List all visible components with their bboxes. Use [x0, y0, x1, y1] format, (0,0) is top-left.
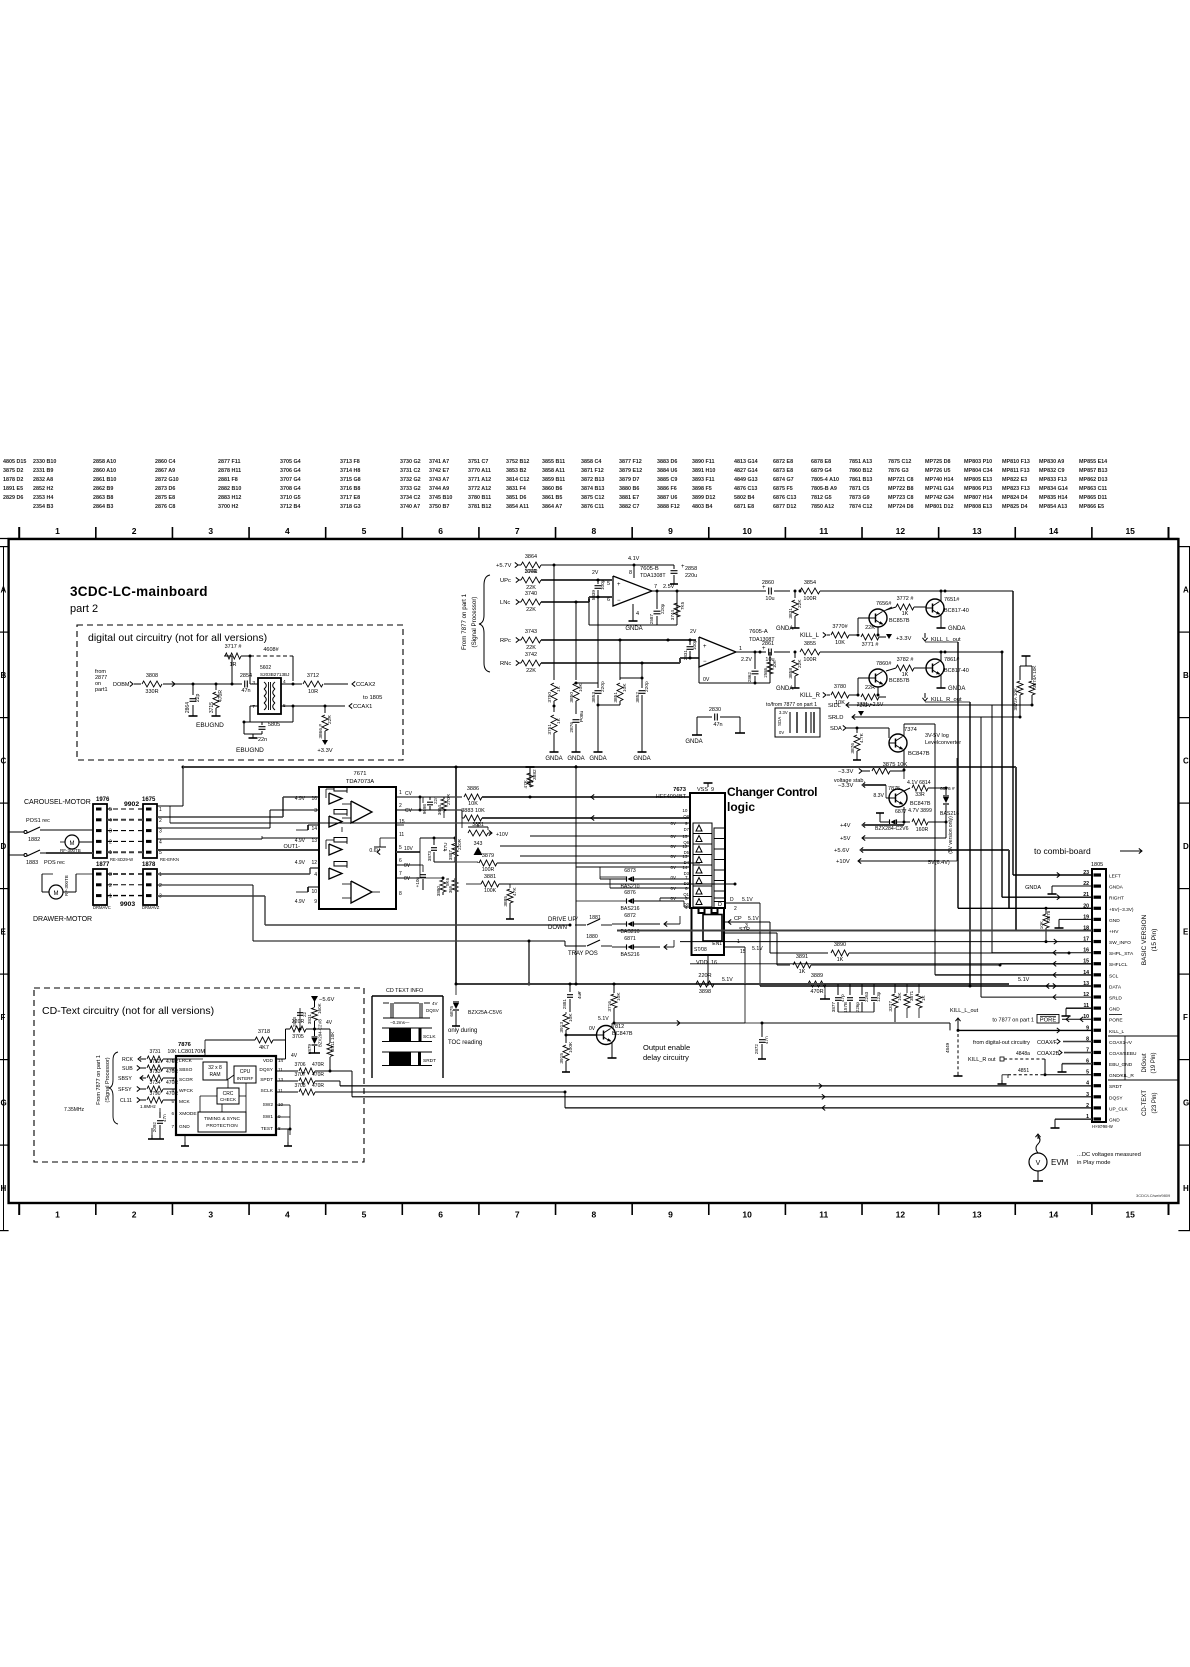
svg-text:3770 A11: 3770 A11: [468, 468, 491, 474]
transistor 7651 BC817-40: [926, 599, 944, 617]
svg-text:3873: 3873: [427, 851, 432, 862]
svg-text:3854 A11: 3854 A11: [506, 504, 529, 510]
resistor 3377 10K: [894, 984, 896, 993]
svg-text:4u7: 4u7: [577, 991, 582, 999]
svg-text:11: 11: [819, 526, 828, 536]
svg-text:3780 B11: 3780 B11: [468, 495, 491, 501]
transistor 7374 level converter: [889, 734, 907, 752]
svg-text:CHECK: CHECK: [220, 1097, 237, 1102]
svg-text:RCK: RCK: [122, 1057, 133, 1063]
svg-text:VDD: VDD: [263, 1058, 274, 1064]
transformer 5602 S203B2713BJ: [258, 678, 281, 714]
svg-text:voltage stab.: voltage stab.: [834, 778, 866, 784]
top ruler tick 0: [18, 527, 20, 539]
svg-text:SRDT: SRDT: [423, 1058, 436, 1064]
svg-text:1K: 1K: [556, 717, 562, 724]
svg-text:7: 7: [399, 871, 402, 877]
motor M carousel: [65, 835, 79, 849]
resistor 3711 10K vertical: [329, 1029, 331, 1043]
svg-text:2353 H4: 2353 H4: [33, 495, 53, 501]
svg-text:DRIVE UP⁄: DRIVE UP⁄: [548, 917, 578, 923]
svg-text:9902: 9902: [124, 801, 139, 808]
overline PORE pin: [1109, 1014, 1122, 1016]
wire pin16 SHPL_STA: [1068, 952, 1070, 954]
svg-text:SHFLCL: SHFLCL: [1109, 962, 1128, 968]
svg-text:2872: 2872: [754, 1044, 759, 1055]
svg-text:2.2V: 2.2V: [741, 657, 752, 663]
svg-text:(15 Pin): (15 Pin): [1151, 929, 1158, 952]
svg-text:3883 D6: 3883 D6: [657, 459, 677, 465]
svg-text:4: 4: [636, 611, 639, 617]
left margin outer line: [3, 547, 5, 1230]
svg-text:Q8: Q8: [683, 814, 689, 819]
svg-text:9: 9: [668, 1210, 673, 1220]
capacitor 2881 4u7 left: [569, 984, 571, 992]
svg-text:3879 E12: 3879 E12: [619, 468, 642, 474]
svg-text:3732: 3732: [149, 1059, 160, 1065]
svg-text:4.7V 3899: 4.7V 3899: [908, 808, 932, 814]
ground caps bank: [838, 1011, 874, 1013]
wire 3855 right: [820, 651, 1002, 653]
svg-text:PROTECTION: PROTECTION: [206, 1123, 238, 1129]
svg-text:3734: 3734: [149, 1080, 160, 1086]
resistor 3881 100K: [481, 881, 499, 887]
svg-text:8: 8: [591, 526, 596, 536]
svg-text:2858: 2858: [685, 566, 697, 572]
node KILL_R_out: [922, 698, 927, 701]
svg-text:330R: 330R: [145, 689, 158, 695]
capacitor 3877 47p: [837, 984, 839, 995]
svg-text:47K: 47K: [512, 887, 518, 896]
svg-text:3878: 3878: [1046, 910, 1051, 921]
svg-text:4.9V: 4.9V: [295, 899, 306, 905]
svg-text:1: 1: [55, 1210, 60, 1220]
output SCLK wire: [276, 1091, 298, 1093]
svg-text:BC847B: BC847B: [910, 801, 931, 807]
capacitor 2883 supply: [299, 1008, 301, 1029]
svg-text:5: 5: [607, 581, 610, 587]
svg-text:2330 B10: 2330 B10: [33, 459, 56, 465]
svg-text:100K: 100K: [568, 1041, 574, 1053]
svg-text:3740 A7: 3740 A7: [400, 504, 420, 510]
svg-text:10K: 10K: [835, 640, 845, 646]
svg-text:3885 C9: 3885 C9: [657, 477, 677, 483]
svg-text:SCLK: SCLK: [260, 1088, 273, 1094]
svg-text:3858 A11: 3858 A11: [542, 468, 565, 474]
svg-text:SW_INFO: SW_INFO: [1109, 940, 1131, 946]
svg-text:7651#: 7651#: [944, 597, 960, 603]
resistor 369x: [454, 878, 456, 880]
svg-text:RF-300TB: RF-300TB: [64, 875, 69, 896]
svg-text:RIGHT: RIGHT: [1109, 896, 1124, 902]
svg-text:2092: 2092: [152, 1122, 157, 1133]
svg-text:3858: 3858: [788, 668, 794, 679]
svg-text:1675: 1675: [142, 797, 156, 803]
svg-text:1881: 1881: [589, 915, 601, 921]
svg-text:6871: 6871: [624, 936, 636, 942]
svg-text:7851 A13: 7851 A13: [849, 459, 872, 465]
svg-text:OUT1-: OUT1-: [284, 844, 301, 850]
svg-text:47K: 47K: [523, 779, 529, 788]
wire HEF D2 row: [600, 876, 626, 878]
svg-text:1: 1: [109, 894, 112, 900]
resistor 3712 10R: [303, 681, 323, 687]
transistor 7656 BC857B: [869, 609, 887, 627]
svg-text:6876 #: 6876 #: [940, 786, 955, 792]
svg-text:RAM: RAM: [209, 1072, 220, 1078]
svg-text:V: V: [1036, 1160, 1041, 1167]
ground 2830 right: [739, 729, 741, 733]
svg-text:3864: 3864: [525, 554, 537, 560]
wire SDA to level converter: [846, 727, 857, 729]
svg-text:DRMAVC: DRMAVC: [93, 905, 111, 910]
svg-text:CD-Text circuitry (not for al: CD-Text circuitry (not for all versions): [42, 1005, 214, 1017]
TDA pin1 CV: [396, 796, 420, 798]
svg-text:6878 E8: 6878 E8: [811, 459, 831, 465]
capacitor 2587 220p feedback: [654, 610, 661, 612]
svg-text:3861 B5: 3861 B5: [542, 495, 562, 501]
wire LNc to opamp pin6: [541, 601, 589, 603]
svg-text:10K: 10K: [622, 683, 628, 692]
resistor 3750 1K: [551, 683, 557, 701]
svg-text:7605-A: 7605-A: [749, 629, 768, 635]
resistor 3741 22K: [521, 577, 541, 583]
svg-text:220p: 220p: [660, 603, 665, 614]
svg-text:5.1V: 5.1V: [1018, 977, 1030, 983]
svg-text:4: 4: [314, 872, 317, 878]
svg-text:220p: 220p: [600, 681, 606, 692]
svg-text:0V: 0V: [703, 677, 710, 683]
svg-text:MP834 G14: MP834 G14: [1039, 486, 1068, 492]
svg-text:2331 B9: 2331 B9: [33, 468, 53, 474]
svg-text:+10V: +10V: [836, 859, 850, 865]
svg-text:3751 C7: 3751 C7: [468, 459, 488, 465]
svg-text:TOC reading: TOC reading: [448, 1040, 482, 1046]
svg-text:+: +: [617, 582, 621, 588]
wire pin14 SCL: [934, 724, 936, 975]
svg-text:MP721 C8: MP721 C8: [888, 477, 913, 483]
svg-text:6877: 6877: [895, 809, 907, 815]
svg-text:10K: 10K: [578, 683, 584, 692]
svg-text:3750 B7: 3750 B7: [429, 504, 449, 510]
svg-text:POS rec: POS rec: [44, 860, 65, 866]
svg-text:3710 G5: 3710 G5: [280, 495, 301, 501]
svg-text:+5V: +5V: [840, 836, 851, 842]
svg-text:SFSY: SFSY: [118, 1087, 132, 1093]
capacitor 6875 zener: [455, 984, 457, 995]
svg-text:SW1: SW1: [263, 1114, 274, 1120]
svg-text:3790: 3790: [149, 1091, 160, 1097]
svg-text:3744 A9: 3744 A9: [429, 486, 449, 492]
svg-text:6: 6: [171, 1111, 174, 1116]
svg-text:1K: 1K: [921, 994, 926, 1001]
svg-text:to/from 7877 on part 1: to/from 7877 on part 1: [766, 702, 817, 708]
svg-text:3814 C12: 3814 C12: [506, 477, 529, 483]
svg-text:4608#: 4608#: [263, 647, 279, 653]
svg-text:SPDT: SPDT: [260, 1077, 273, 1083]
svg-text:3718: 3718: [258, 1029, 270, 1035]
svg-text:MP825 D4: MP825 D4: [1002, 504, 1027, 510]
svg-text:GNDA: GNDA: [1025, 885, 1041, 891]
svg-text:7: 7: [515, 526, 520, 536]
svg-text:3715: 3715: [209, 702, 215, 713]
svg-text:6879 G4: 6879 G4: [811, 468, 832, 474]
svg-text:10u: 10u: [765, 596, 774, 602]
svg-text:4849 G13: 4849 G13: [734, 477, 758, 483]
svg-text:9698: 9698: [422, 804, 427, 815]
feedback loop 7605-A: [698, 667, 700, 683]
svg-text:100R: 100R: [803, 657, 816, 663]
dashed harness wires 9902: [107, 808, 112, 810]
svg-text:5: 5: [399, 845, 402, 851]
wire pin22 GNDA: [1052, 885, 1092, 887]
HEF STB pin3: [725, 932, 777, 934]
wire HEF Q1 row: [610, 887, 690, 889]
svg-text:2860 A10: 2860 A10: [93, 468, 116, 474]
resistor 3733 470R: [147, 1075, 163, 1081]
svg-text:GNDA: GNDA: [685, 739, 702, 745]
wire CV row2 right: [420, 809, 462, 811]
svg-text:EBUGND: EBUGND: [236, 747, 264, 754]
svg-text:3711 10K: 3711 10K: [330, 1031, 335, 1051]
svg-text:123p: 123p: [876, 991, 881, 1002]
svg-text:1: 1: [159, 807, 162, 813]
supply -5.6V CD: [311, 996, 318, 1002]
svg-text:CD-TEXT: CD-TEXT: [1142, 1090, 1148, 1116]
svg-text:DRMAVZ: DRMAVZ: [142, 905, 160, 910]
svg-text:MP832 C9: MP832 C9: [1039, 468, 1064, 474]
resistor 3706 470R: [299, 1068, 315, 1074]
svg-text:343: 343: [474, 841, 483, 847]
wire VDD riser: [276, 1058, 286, 1060]
svg-text:BC847B: BC847B: [908, 751, 930, 757]
svg-text:1K: 1K: [799, 969, 806, 975]
svg-text:MP801 D12: MP801 D12: [925, 504, 953, 510]
svg-text:2881 F8: 2881 F8: [218, 477, 238, 483]
CD input brace: [109, 1052, 118, 1124]
svg-text:7: 7: [171, 1124, 174, 1129]
capacitor 2092 47n: [159, 1108, 161, 1112]
vertical bus x1002: [1001, 652, 1003, 897]
svg-text:1K: 1K: [902, 672, 909, 678]
ground GNDA 7661: [940, 675, 942, 684]
svg-text:GNDA: GNDA: [589, 756, 606, 762]
svg-text:CPU: CPU: [240, 1069, 251, 1075]
svg-text:LNc: LNc: [500, 600, 510, 606]
capacitor 2263 226p: [861, 984, 863, 995]
svg-text:D: D: [718, 902, 722, 908]
CRC CHECK box: [217, 1088, 239, 1104]
svg-text:1R: 1R: [229, 662, 236, 668]
TDA pin7 0V: [396, 877, 420, 879]
svg-text:3716 B8: 3716 B8: [340, 486, 360, 492]
svg-text:only during: only during: [448, 1028, 477, 1034]
svg-text:22K: 22K: [526, 668, 536, 674]
TDA pin6 0V: [396, 864, 420, 866]
svg-text:3740: 3740: [525, 591, 537, 597]
wire base node: [565, 1034, 568, 1037]
svg-text:22K: 22K: [865, 625, 875, 631]
svg-text:−: −: [703, 659, 707, 665]
svg-text:22p: 22p: [195, 693, 201, 702]
svg-text:MP835 H14: MP835 H14: [1039, 495, 1067, 501]
wire motor to connector pin2: [79, 841, 93, 843]
svg-text:MP863 C11: MP863 C11: [1079, 486, 1107, 492]
svg-text:+HV: +HV: [1109, 929, 1119, 935]
svg-text:4.9V: 4.9V: [295, 796, 306, 802]
top ruler tick 12: [938, 527, 940, 539]
wire pin20 +5V: [958, 907, 1092, 909]
svg-text:2862: 2862: [747, 672, 752, 683]
diode 6877 BZX284-C2V6: [903, 807, 905, 822]
wire 7812 collector: [611, 1023, 613, 1027]
resistor 3850 10K: [573, 683, 579, 701]
svg-text:+10u: +10u: [415, 877, 420, 888]
bottom ruler tick 8: [631, 1203, 633, 1215]
svg-text:SCLK: SCLK: [423, 1034, 436, 1040]
svg-text:3741 A7: 3741 A7: [429, 459, 449, 465]
svg-text:MP724 D8: MP724 D8: [888, 504, 913, 510]
svg-text:7812 G5: 7812 G5: [811, 495, 832, 501]
svg-text:5: 5: [109, 807, 112, 813]
svg-text:MP824 D4: MP824 D4: [1002, 495, 1027, 501]
svg-text:3880 B6: 3880 B6: [619, 486, 639, 492]
svg-text:2: 2: [399, 803, 402, 809]
svg-text:COAX2B: COAX2B: [1037, 1051, 1060, 1057]
resistor 3743 22K: [521, 637, 541, 643]
svg-text:9903: 9903: [120, 901, 135, 908]
svg-text:C: C: [1183, 756, 1189, 765]
wire pin23 LEFT: [1013, 874, 1092, 876]
svg-text:3745 B10: 3745 B10: [429, 495, 452, 501]
wire 1675 pin4 right: [157, 838, 262, 840]
svg-text:1K: 1K: [556, 685, 562, 692]
resistor 3771 22K: [861, 634, 879, 640]
ground GNDA 3858: [794, 684, 796, 688]
svg-text:TRAY POS: TRAY POS: [568, 951, 598, 957]
svg-text:3854: 3854: [804, 580, 816, 586]
svg-text:7605-B: 7605-B: [640, 566, 659, 572]
svg-text:4851: 4851: [1018, 1068, 1029, 1074]
svg-text:8: 8: [629, 570, 632, 576]
wire D pin down: [759, 903, 761, 986]
ground 2092: [159, 1135, 161, 1139]
svg-text:3879 D7: 3879 D7: [619, 477, 639, 483]
svg-text:COAX⁄F: COAX⁄F: [1037, 1040, 1058, 1046]
svg-text:14: 14: [311, 826, 317, 832]
svg-text:B: B: [1183, 671, 1189, 680]
svg-text:470R: 470R: [810, 989, 823, 995]
wire 7605-A output right: [736, 651, 760, 653]
capacitor 3852 220p: [641, 663, 643, 688]
svg-text:3874 B13: 3874 B13: [581, 486, 604, 492]
svg-text:5.1V: 5.1V: [598, 1016, 609, 1022]
svg-text:MP810 F13: MP810 F13: [1002, 459, 1030, 465]
bottom ruler tick 1: [95, 1203, 97, 1215]
bottom ruler tick 0: [18, 1203, 20, 1215]
resistor 3744 7K5 feedback: [674, 603, 680, 617]
wire from pin5 thick down: [419, 852, 421, 878]
wire 3854 right to bus: [820, 590, 1013, 592]
node CCAX1: [349, 703, 352, 708]
svg-text:BAS216: BAS216: [940, 811, 959, 817]
wire HEF pin4 row: [684, 906, 690, 908]
right row divider 2: [1178, 717, 1190, 719]
vertical bus x970: [969, 702, 971, 986]
svg-text:2: 2: [159, 883, 162, 889]
svg-text:3915: 3915: [559, 1053, 565, 1064]
svg-text:3898: 3898: [699, 989, 711, 995]
svg-text:3881 E7: 3881 E7: [619, 495, 639, 501]
svg-text:3733: 3733: [149, 1069, 160, 1075]
wire pin9 KILL_L: [957, 1029, 960, 1032]
svg-text:MP830 A9: MP830 A9: [1039, 459, 1064, 465]
HEF bottom control section: [692, 908, 725, 955]
resistor 3831 22K vertical: [794, 591, 796, 598]
resistor 3872A 10K: [1019, 666, 1021, 680]
7876 TEST stub: [276, 1128, 290, 1130]
resistor 3855 100R: [794, 651, 797, 654]
svg-text:3831: 3831: [307, 1014, 312, 1025]
svg-text:47n: 47n: [162, 1114, 167, 1122]
resistor 3888 1K: [918, 984, 920, 993]
big triangle right top: [351, 801, 372, 823]
svg-text:3891 H10: 3891 H10: [692, 468, 715, 474]
svg-text:2864 B3: 2864 B3: [93, 504, 113, 510]
svg-text:BC857B: BC857B: [889, 618, 910, 624]
svg-text:1880: 1880: [586, 934, 598, 940]
svg-text:15: 15: [1125, 1210, 1135, 1220]
wire up to 3717: [231, 683, 234, 686]
svg-text:DATA: DATA: [1109, 984, 1122, 990]
svg-text:BASIC VERSION: BASIC VERSION: [1141, 914, 1148, 965]
top ruler tick 14: [1091, 527, 1093, 539]
svg-text:4.7K: 4.7K: [859, 732, 865, 743]
svg-text:CV: CV: [405, 791, 413, 797]
svg-text:3872A 10K: 3872A 10K: [1013, 687, 1018, 710]
svg-text:3: 3: [109, 872, 112, 878]
svg-text:SRLD: SRLD: [828, 715, 843, 721]
svg-text:6879: 6879: [307, 1044, 312, 1055]
wire vertical 3851: [619, 640, 621, 680]
wire 3850 junction to 598: [576, 682, 598, 684]
svg-text:MP740 H14: MP740 H14: [925, 477, 953, 483]
svg-text:BAS216: BAS216: [620, 952, 639, 958]
svg-text:2878 H11: 2878 H11: [218, 468, 241, 474]
svg-text:3.3V: 3.3V: [779, 710, 788, 715]
svg-text:DQSY: DQSY: [259, 1067, 273, 1073]
svg-text:3741: 3741: [525, 569, 537, 575]
svg-text:3899 D12: 3899 D12: [692, 495, 715, 501]
svg-text:(Signal Processor): (Signal Processor): [105, 1057, 111, 1102]
svg-text:220R: 220R: [698, 973, 711, 979]
svg-text:6875: 6875: [449, 1006, 455, 1017]
svg-text:M: M: [70, 841, 75, 847]
svg-text:22K: 22K: [526, 645, 536, 651]
top ruler tick 9: [708, 527, 710, 539]
resistor 3715 470R: [215, 683, 218, 686]
svg-text:GNDA: GNDA: [633, 756, 650, 762]
svg-text:From 7877 on part 1: From 7877 on part 1: [96, 1055, 102, 1105]
svg-text:MP866 E5: MP866 E5: [1079, 504, 1104, 510]
svg-text:5.1V: 5.1V: [742, 897, 753, 903]
bottom ruler tick 3: [248, 1203, 250, 1215]
svg-text:DRAWER-MOTOR: DRAWER-MOTOR: [33, 916, 92, 923]
svg-text:H: H: [1183, 1184, 1189, 1193]
svg-text:270R: 270R: [446, 793, 451, 805]
svg-text:160K: 160K: [317, 1002, 322, 1014]
top ruler tick 4: [325, 527, 327, 539]
